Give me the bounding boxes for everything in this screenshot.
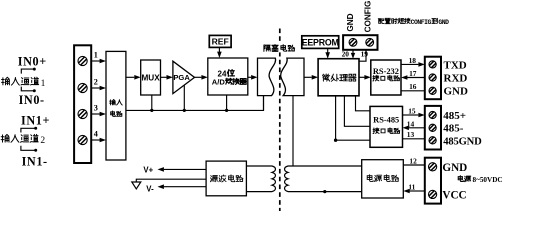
wire isolator to MCU [304, 76, 312, 78]
svg-text:4: 4 [94, 129, 98, 138]
block ADC U4 24-bit A/D converter [208, 58, 248, 95]
svg-text:8~50VDC: 8~50VDC [473, 176, 503, 184]
label isolation circuit 隔离电路 [262, 44, 297, 53]
wire MCU to RS-485 line B [344, 96, 370, 127]
wire MCU to RS-485 line A [356, 96, 371, 111]
svg-text:IN0+: IN0+ [18, 55, 47, 69]
block input circuit 输入电路 [106, 51, 126, 160]
wire PGA ground stub [183, 85, 185, 110]
wire pin20 GND to MCU [352, 50, 354, 53]
wire isolator-right power stub [292, 96, 294, 166]
label input channel 2 [1, 134, 9, 142]
svg-text:GND: GND [442, 162, 467, 174]
svg-text:17: 17 [409, 69, 417, 78]
svg-text:485GND: 485GND [443, 136, 482, 147]
terminal block J1 (analog inputs pins 1-4) [74, 45, 91, 163]
wire pin 4 to input circuit [91, 139, 100, 141]
wire analog ground [136, 179, 206, 182]
svg-text:3: 3 [94, 103, 98, 112]
svg-text:IN1-: IN1- [22, 154, 48, 168]
isolator left segment [258, 58, 276, 96]
svg-text:CONFIG: CONFIG [363, 1, 372, 33]
svg-text:PGA: PGA [173, 73, 190, 82]
block EEPROM U5 [302, 36, 339, 49]
svg-text:MUX: MUX [141, 73, 160, 82]
svg-text:CONFIG: CONFIG [411, 19, 432, 26]
wire bracket channel1 top [21, 69, 34, 74]
wire pin 3 to input circuit [91, 113, 100, 115]
block RS-485 interface U8 [370, 106, 403, 147]
wire bracket channel2 bottom [21, 146, 35, 151]
block power circuit 电源电路 [362, 160, 404, 198]
svg-text:GND: GND [444, 86, 469, 98]
node junction on power line [323, 190, 326, 193]
wire EEPROM to MCU [327, 48, 329, 52]
block MCU U6 microprocessor 微处理器 [318, 59, 359, 96]
svg-text:IN1+: IN1+ [21, 113, 50, 127]
terminal block J3 (RS-232: TXD/RXD/GND) [425, 57, 441, 99]
terminal block J5 (power: GND/VCC) [425, 158, 441, 204]
wire pin 2 to input circuit [91, 87, 100, 89]
svg-text:VCC: VCC [442, 189, 466, 201]
svg-text:2: 2 [94, 77, 98, 86]
svg-text:485-: 485- [443, 123, 464, 135]
wire isolation barrier (dashed) [279, 29, 281, 212]
svg-text:13: 13 [407, 130, 415, 139]
svg-text:1: 1 [41, 79, 46, 89]
svg-text:15: 15 [408, 106, 416, 115]
svg-text:485+: 485+ [443, 110, 466, 122]
block REF voltage reference [209, 35, 231, 47]
node junction on RS-485 line C [334, 139, 337, 142]
label input channel 1 [2, 77, 10, 85]
wire input circuit to MUX [126, 76, 134, 78]
wire bracket channel1 bottom [21, 87, 34, 91]
ground symbol (analog) [132, 182, 141, 189]
svg-text:RS-232: RS-232 [373, 67, 399, 76]
svg-text:V+: V+ [143, 165, 153, 174]
svg-text:REF: REF [212, 37, 229, 47]
wire MCU to RS-232 [359, 76, 365, 78]
wire MUX ground stub [151, 95, 153, 110]
node junction MUX-bus [150, 109, 153, 112]
block RS-232 interface U7 [371, 60, 401, 95]
wire analog common bus [126, 96, 264, 111]
svg-text:RS-485: RS-485 [373, 116, 399, 125]
svg-text:A/D: A/D [212, 78, 226, 87]
svg-text:RXD: RXD [444, 72, 468, 84]
wire REF to ADC [218, 47, 220, 52]
block filter circuit 滤波电路 [206, 161, 246, 196]
node junction PGA-bus [183, 109, 186, 112]
wire MUX to PGA [161, 76, 167, 78]
svg-text:12: 12 [409, 156, 417, 165]
svg-text:19: 19 [361, 50, 369, 59]
wire bracket channel2 top [21, 128, 35, 132]
wire ADC ground stub [226, 95, 228, 110]
transformer T1 secondary winding [285, 166, 362, 192]
note power supply range 电源 8~50VDC [458, 176, 502, 184]
svg-text:GND: GND [346, 13, 355, 31]
wire V+ output [164, 168, 206, 170]
svg-text:TXD: TXD [444, 59, 467, 71]
wire ADC to isolator [248, 76, 251, 78]
wire PGA to ADC [195, 76, 202, 78]
wire pin 1 to input circuit [91, 60, 100, 62]
svg-text:16: 16 [409, 82, 417, 91]
svg-text:18: 18 [409, 56, 417, 65]
block MUX U2 [141, 60, 161, 95]
svg-text:20: 20 [342, 50, 350, 59]
svg-text:GND: GND [438, 19, 449, 26]
svg-text:V-: V- [146, 184, 154, 193]
amplifier PGA U3 (triangle) [173, 61, 195, 93]
svg-text:EEPROM: EEPROM [302, 37, 339, 47]
terminal block J2 (GND pin20 / CONFIG pin19) [343, 35, 377, 50]
wire isolator-left ground stub [263, 96, 265, 111]
wire pin19 CONFIG to MCU [359, 50, 366, 61]
svg-text:2: 2 [40, 136, 45, 146]
svg-text:IN0-: IN0- [19, 93, 45, 107]
note: short CONFIG to GND when configuring [378, 18, 449, 26]
wire MCU to RS-485 line C [336, 96, 370, 140]
transformer T1 primary winding [246, 166, 275, 192]
node junction ADC-bus [225, 109, 228, 112]
isolator right segment [281, 58, 304, 96]
terminal block J4 (RS-485: 485+/485-/485GND) [425, 106, 441, 150]
wire V- output [164, 186, 206, 188]
svg-text:1: 1 [94, 50, 98, 59]
